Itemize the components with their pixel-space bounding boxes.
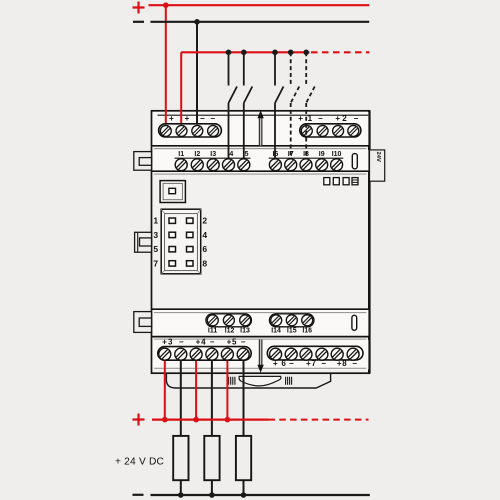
svg-text:3: 3	[168, 337, 173, 346]
svg-text:I3: I3	[210, 151, 216, 158]
svg-text:6: 6	[281, 359, 286, 368]
svg-text:I13: I13	[240, 327, 250, 334]
svg-text:8: 8	[342, 359, 347, 368]
svg-text:+: +	[196, 337, 201, 346]
svg-text:I11: I11	[208, 327, 217, 334]
svg-text:+: +	[185, 114, 190, 123]
svg-text:−: −	[352, 359, 357, 368]
svg-text:+ 24 V DC: + 24 V DC	[115, 457, 164, 468]
svg-text:3: 3	[153, 230, 158, 240]
svg-text:+: +	[162, 337, 167, 346]
svg-text:+: +	[298, 114, 303, 123]
svg-text:−: −	[210, 114, 215, 123]
svg-text:−: −	[354, 114, 359, 123]
svg-text:−: −	[318, 114, 323, 123]
svg-text:8: 8	[202, 258, 207, 268]
svg-text:4: 4	[201, 337, 206, 346]
svg-text:+: +	[169, 114, 174, 123]
svg-text:+: +	[335, 114, 340, 123]
svg-text:24V: 24V	[375, 152, 381, 162]
svg-text:2: 2	[202, 216, 207, 226]
svg-text:6: 6	[202, 244, 207, 254]
svg-text:1: 1	[308, 114, 313, 123]
svg-text:I10: I10	[332, 151, 342, 158]
svg-text:−: −	[179, 337, 184, 346]
svg-text:−: −	[321, 359, 326, 368]
svg-text:I5: I5	[243, 151, 249, 158]
svg-text:+: +	[227, 337, 232, 346]
svg-text:−: −	[241, 337, 246, 346]
svg-text:−: −	[210, 337, 215, 346]
svg-text:2: 2	[342, 114, 347, 123]
svg-text:I14: I14	[271, 327, 281, 334]
svg-text:+: +	[273, 359, 278, 368]
svg-text:7: 7	[153, 258, 158, 268]
svg-text:I1: I1	[178, 151, 184, 158]
svg-text:+: +	[337, 359, 342, 368]
svg-text:I9: I9	[319, 151, 325, 158]
svg-text:I16: I16	[302, 327, 312, 334]
svg-text:I6: I6	[272, 151, 278, 158]
svg-text:−: −	[289, 359, 294, 368]
svg-text:5: 5	[153, 244, 158, 254]
svg-text:I7: I7	[288, 151, 294, 158]
svg-text:7: 7	[311, 359, 316, 368]
svg-text:I2: I2	[194, 151, 200, 158]
svg-text:I15: I15	[287, 327, 297, 334]
svg-text:5: 5	[232, 337, 237, 346]
svg-text:−: −	[200, 114, 205, 123]
svg-text:I8: I8	[303, 151, 309, 158]
svg-text:+: +	[306, 359, 311, 368]
svg-text:I4: I4	[227, 151, 233, 158]
svg-text:I12: I12	[225, 327, 235, 334]
svg-text:4: 4	[202, 230, 207, 240]
svg-text:1: 1	[153, 216, 158, 226]
